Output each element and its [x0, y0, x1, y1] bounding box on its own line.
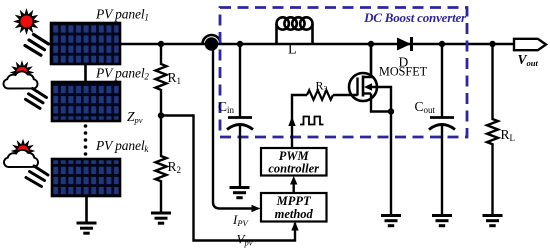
svg-text:MPPT: MPPT [276, 194, 312, 208]
node MOSFET drain tap [368, 41, 374, 47]
arrow gate drive [288, 117, 295, 127]
capacitor Cout [441, 44, 443, 118]
square wave symbol [300, 117, 324, 125]
Vout connector [514, 39, 546, 50]
wire panel1 to panel2 [84, 64, 87, 82]
svg-text:PV panelk: PV panelk [95, 138, 149, 154]
resistor RL [487, 44, 498, 215]
wire PWM to gate [292, 95, 307, 148]
node source junction [388, 108, 394, 114]
arrow Vpv into MPPT [291, 222, 298, 231]
ground below panel k [77, 223, 97, 233]
current sensor node [203, 35, 221, 44]
wire drain [370, 44, 372, 77]
wire panel k to ground [85, 196, 88, 223]
transistor MOSFET [349, 44, 391, 112]
DC boost converter dashed box [220, 8, 467, 138]
inductor L [277, 17, 313, 44]
arrow MOSFET body [364, 83, 372, 91]
PV panel 2 [52, 82, 120, 121]
resistor R1 [156, 44, 167, 116]
sun 2 with cloud [3, 63, 46, 109]
ground below MOSFET [381, 216, 401, 226]
node Cin tap [237, 41, 243, 47]
sun 1 [16, 11, 49, 56]
ground below Cin [230, 188, 250, 198]
wire MPPT to PWM [293, 182, 295, 193]
svg-text:L: L [288, 43, 297, 58]
wire Vpv sense from junction [161, 116, 295, 241]
node Cout tap [439, 41, 445, 47]
svg-text:PV panel1: PV panel1 [95, 7, 149, 23]
wire Ipv sense [213, 50, 252, 209]
svg-text:method: method [275, 207, 314, 221]
svg-text:PV panel2: PV panel2 [95, 66, 149, 82]
PV panel k [52, 159, 120, 196]
svg-text:MOSFET: MOSFET [379, 65, 428, 79]
arrow Ipv into MPPT [252, 205, 261, 212]
capacitor Cin [239, 44, 241, 118]
diode D [397, 38, 411, 51]
MPPT method box [261, 193, 327, 222]
resistor R3 [307, 90, 333, 100]
ground below Cout [432, 216, 452, 226]
resistor R2 [156, 116, 167, 213]
node R1-R2 junction [158, 112, 164, 118]
node R1 tap [158, 41, 164, 47]
sun 3 with cloud [4, 141, 48, 186]
main top wire [120, 43, 514, 45]
node RL tap [489, 41, 495, 47]
dotted series line [84, 124, 88, 156]
svg-text:DC Boost converter: DC Boost converter [363, 10, 467, 25]
PV panel 1 [51, 23, 120, 64]
svg-text:controller: controller [268, 162, 319, 176]
ground below RL [483, 216, 503, 226]
ground below R2 [151, 213, 171, 223]
wire source to ground [390, 112, 392, 216]
gate wire [333, 94, 358, 96]
PWM controller box [261, 148, 327, 176]
arrow MPPT to PWM [290, 176, 297, 185]
